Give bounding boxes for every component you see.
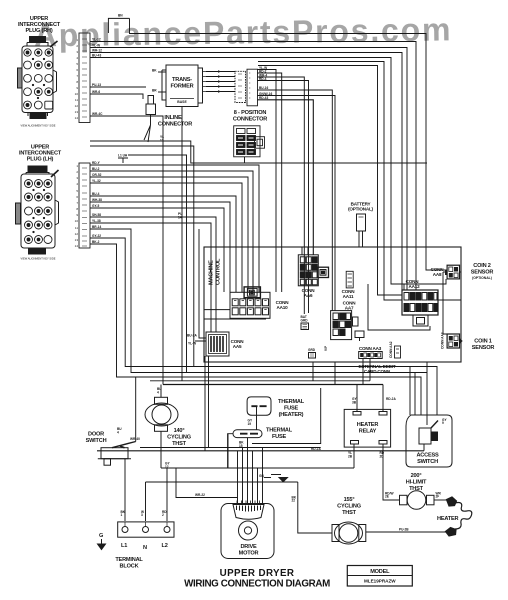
connector CONN AA8 — [431, 265, 460, 279]
svg-text:GY-22: GY-22 — [92, 234, 101, 238]
wire bus y482 — [146, 481, 298, 483]
wire relay YL-2B down — [353, 444, 355, 468]
svg-text:FUSE: FUSE — [284, 406, 299, 412]
terminal block TB1 — [118, 522, 174, 537]
node RH strip wire labels — [92, 38, 103, 116]
access switch S2 — [406, 415, 452, 467]
svg-text:14: 14 — [178, 215, 182, 219]
wire BU-4 — [90, 196, 236, 292]
wire RD-43 — [257, 100, 313, 255]
svg-text:HI-LIMIT: HI-LIMIT — [406, 480, 427, 486]
svg-text:RELAY: RELAY — [359, 429, 377, 435]
connector CONN AA6 — [298, 255, 328, 286]
battery B1 — [348, 202, 373, 232]
heater relay K1 — [344, 409, 390, 447]
connector CONN AA4 — [441, 332, 463, 349]
svg-text:BR: BR — [152, 89, 157, 93]
wire GN-W — [257, 96, 335, 311]
wire box drop x335 — [334, 362, 336, 385]
thermostat TH3 155 cycling — [332, 522, 366, 544]
wire net UH row155 — [128, 155, 187, 373]
svg-text:GY-5: GY-5 — [92, 204, 99, 208]
transformer T1 — [162, 65, 206, 107]
svg-text:GRD: GRD — [308, 348, 316, 352]
svg-text:13: 13 — [75, 110, 79, 114]
svg-text:11: 11 — [75, 226, 78, 230]
wire transformer out 4 — [206, 86, 235, 88]
node CONN AA11 label — [342, 289, 356, 299]
wire fuse drop x228 — [227, 434, 229, 468]
wire AA5 feeds — [195, 229, 206, 341]
svg-text:CONN AA3: CONN AA3 — [359, 346, 382, 351]
svg-text:8 - POSITION: 8 - POSITION — [234, 110, 267, 116]
svg-text:COIN 1: COIN 1 — [474, 339, 492, 345]
svg-text:14: 14 — [75, 116, 79, 120]
node 200 HI-LIMIT THST label — [406, 473, 427, 492]
svg-text:VIEW ALIGNMENT KEY SIDE: VIEW ALIGNMENT KEY SIDE — [21, 124, 56, 128]
svg-text:OR-52: OR-52 — [92, 173, 102, 177]
connector CONN AA2 — [389, 341, 401, 358]
node RH strip pin numbers — [75, 38, 79, 120]
wire AA8 to edge — [459, 271, 461, 273]
node CONN AA5 label — [231, 339, 245, 349]
machine control box U1 — [204, 247, 461, 362]
node COIN 2 SENSOR label — [471, 263, 494, 280]
wire inline drop — [144, 114, 151, 142]
wire access drop — [423, 445, 425, 451]
wire RD-4 — [257, 81, 309, 314]
thermostat TH2 hi-limit — [400, 491, 435, 510]
wire AA12 jogs — [404, 284, 461, 300]
wire relay RD-2D down — [383, 444, 399, 500]
wire box drop x313 — [312, 362, 314, 381]
svg-text:DOOR: DOOR — [88, 432, 104, 438]
wire WR-4C vertical — [90, 116, 163, 385]
wire access feed x427 — [426, 362, 428, 425]
wire net row146 — [90, 146, 194, 367]
svg-text:MOTOR: MOTOR — [239, 551, 259, 557]
svg-text:PU-13: PU-13 — [92, 83, 101, 87]
svg-text:PLUG (RH): PLUG (RH) — [25, 28, 52, 34]
connector inline — [146, 96, 156, 115]
wire YL-W top — [90, 48, 407, 291]
svg-text:10: 10 — [75, 219, 79, 223]
wire thermal corner box — [252, 388, 321, 444]
wire RD-2 — [257, 73, 282, 292]
node EXTERNAL DEBIT CARD CONN label — [359, 364, 396, 374]
svg-text:WR-6: WR-6 — [92, 90, 100, 94]
wire YL-32 — [90, 183, 242, 292]
connector 8-position — [235, 69, 258, 106]
svg-text:AA8: AA8 — [433, 272, 442, 277]
svg-text:THST: THST — [342, 510, 357, 516]
thermal fuse F1 (heater) — [247, 397, 271, 415]
node UPPER INTERCONNECT PLUG (RH) label — [18, 16, 61, 34]
wire bus y380.8 — [150, 380, 370, 382]
svg-text:BASE: BASE — [177, 100, 187, 104]
svg-text:AA10: AA10 — [277, 305, 289, 310]
svg-text:PU-2B: PU-2B — [399, 528, 409, 532]
svg-text:PLUG (LH): PLUG (LH) — [27, 157, 54, 163]
wire staircase node — [90, 141, 427, 163]
svg-text:SENSOR: SENSOR — [471, 270, 494, 276]
connector P-LH plug pins — [25, 180, 53, 244]
wire WR-4 — [257, 77, 304, 314]
svg-text:COIN 2: COIN 2 — [473, 263, 491, 269]
wire YL-12 — [90, 42, 416, 291]
wire WR-6 — [90, 94, 143, 99]
node ACCESS SWITCH label — [416, 453, 439, 466]
node BAT GRD terminal — [301, 315, 309, 330]
wire DE drop — [244, 157, 246, 163]
svg-text:FORMER: FORMER — [170, 84, 193, 90]
wire transformer in BK — [158, 71, 166, 73]
wire L2 riser — [166, 468, 168, 521]
wire WR-22 jog — [176, 468, 238, 498]
wire transformer in BR — [158, 91, 166, 93]
wire BK-2 — [90, 244, 421, 415]
svg-text:L1 UH: L1 UH — [118, 154, 128, 158]
ground G2 near motor — [259, 474, 288, 482]
svg-text:N: N — [143, 545, 147, 551]
connector CONN AA7 — [331, 311, 364, 341]
wire bus y468 — [161, 467, 354, 469]
heater HTR1 — [446, 497, 472, 536]
svg-text:BK-2: BK-2 — [92, 240, 100, 244]
svg-text:UPPER DRYER: UPPER DRYER — [220, 568, 295, 579]
connector P-RH plug pins — [24, 49, 53, 109]
wire AA5 drop pair — [205, 356, 209, 451]
connector J-RH strip — [79, 33, 90, 123]
wire GY-5 — [90, 208, 224, 292]
node CONN AA10 label — [276, 300, 290, 310]
node bottom title — [184, 568, 330, 590]
svg-text:BR-14: BR-14 — [92, 225, 101, 229]
svg-text:12: 12 — [75, 232, 79, 236]
wire transformer out 5 — [206, 91, 235, 93]
svg-text:CONTROL: CONTROL — [216, 258, 222, 285]
connector CONN AA3 — [359, 346, 383, 359]
svg-text:THERMAL: THERMAL — [266, 428, 293, 434]
wire N riser — [145, 482, 147, 521]
wire AA6 feeds — [302, 247, 308, 255]
svg-text:CARD CONN: CARD CONN — [364, 369, 391, 374]
node HEATER RELAY label — [357, 422, 379, 435]
wire ground-GN stub — [264, 477, 271, 479]
svg-text:140°: 140° — [174, 428, 185, 434]
svg-text:SWITCH: SWITCH — [417, 459, 438, 465]
svg-text:INLINE: INLINE — [164, 115, 182, 121]
svg-text:14: 14 — [75, 244, 79, 248]
connector P-RH plug body — [18, 37, 58, 119]
node THERMAL FUSE (HEATER) label — [278, 399, 305, 418]
node DRIVE MOTOR label — [239, 544, 259, 557]
svg-text:CONN AA4: CONN AA4 — [441, 332, 445, 349]
svg-text:ACCESS: ACCESS — [416, 453, 439, 459]
connector J-LH strip — [79, 163, 90, 248]
wire door lever feed — [135, 377, 137, 442]
wire YL-W conn — [257, 70, 276, 293]
wire BN jog top — [108, 18, 129, 33]
thermostat TH1 140 cycling — [145, 385, 178, 469]
svg-text:HEATER: HEATER — [437, 516, 459, 522]
svg-text:BU-2A: BU-2A — [187, 334, 197, 338]
node THERMAL FUSE label — [266, 428, 293, 441]
wire BU-16 — [257, 90, 332, 311]
svg-text:BLOCK: BLOCK — [120, 564, 139, 570]
svg-text:WH-38: WH-38 — [92, 198, 102, 202]
svg-text:WR-4C: WR-4C — [92, 112, 103, 116]
svg-text:THST: THST — [172, 441, 187, 447]
node TERMINAL BLOCK label — [115, 557, 143, 570]
wire thermal link — [256, 407, 258, 430]
svg-text:12: 12 — [75, 104, 79, 108]
node MACHINE CONTROL label — [209, 258, 222, 285]
svg-text:BU-43: BU-43 — [92, 54, 101, 58]
svg-text:GN: GN — [259, 474, 264, 478]
connector CONN AA11 — [346, 271, 353, 288]
svg-text:BU-4: BU-4 — [92, 192, 100, 196]
wire battery leads — [359, 231, 363, 247]
wire UH stub — [118, 158, 128, 163]
svg-text:AA11: AA11 — [343, 294, 354, 299]
wire coin link AA8-AA4 — [443, 272, 447, 334]
svg-text:155°: 155° — [344, 497, 355, 503]
svg-text:FUSE: FUSE — [272, 434, 287, 440]
svg-text:CONN AA2: CONN AA2 — [389, 341, 393, 358]
svg-text:YL12: YL12 — [160, 135, 164, 142]
svg-text:RD-2A: RD-2A — [311, 447, 321, 451]
wire GY-22 — [90, 238, 437, 415]
wire hi-limit to heater — [434, 499, 447, 501]
wire motor leads — [238, 438, 263, 504]
svg-text:SH-58: SH-58 — [92, 213, 101, 217]
wire net top7 — [258, 62, 402, 301]
wire door to right y447.5 — [140, 447, 321, 449]
svg-text:L1: L1 — [121, 543, 127, 549]
svg-text:WIRING CONNECTION DIAGRAM: WIRING CONNECTION DIAGRAM — [184, 579, 330, 590]
svg-text:V/P: V/P — [324, 345, 328, 351]
svg-text:GRD: GRD — [301, 319, 309, 323]
wire transformer base drop — [181, 107, 183, 381]
wire WR-12 — [90, 53, 402, 291]
node 155 CYCLING THST label — [337, 497, 361, 516]
wire bus y450.8 thick — [97, 450, 424, 452]
connector CONN AA10 — [230, 287, 270, 318]
wire bus WR-4C thick — [163, 384, 383, 386]
svg-text:13: 13 — [75, 238, 79, 242]
connector CONN AA5 — [206, 332, 229, 356]
svg-text:AA5: AA5 — [233, 344, 242, 349]
svg-text:VIEW ALIGNMENT KEY SIDE: VIEW ALIGNMENT KEY SIDE — [21, 257, 56, 261]
node COIN 1 SENSOR label — [472, 339, 495, 352]
svg-text:AA6: AA6 — [304, 293, 313, 298]
node 140 CYCLING THST label — [167, 428, 191, 447]
motor M1 drive — [221, 501, 274, 559]
wire SH-58 — [90, 217, 216, 332]
svg-text:TRANS-: TRANS- — [172, 77, 192, 83]
svg-text:YL-12: YL-12 — [92, 38, 101, 42]
wire WH-38 — [90, 202, 230, 292]
svg-text:200°: 200° — [411, 473, 422, 479]
svg-text:YL-32: YL-32 — [92, 179, 101, 183]
svg-text:L2: L2 — [162, 543, 168, 549]
wire YL-38 — [90, 223, 211, 332]
svg-text:MODEL: MODEL — [370, 569, 390, 575]
svg-text:YL2B: YL2B — [348, 451, 353, 458]
svg-text:SENSOR: SENSOR — [472, 345, 495, 351]
connector P-LH plug body — [16, 166, 59, 254]
wire BK riser — [298, 482, 332, 533]
wire AA4 to edge — [459, 340, 461, 342]
svg-text:YL-38: YL-38 — [92, 219, 101, 223]
wire RD-Y — [90, 165, 259, 292]
svg-text:(OPTIONAL): (OPTIONAL) — [348, 207, 373, 212]
wire L1 riser — [124, 459, 126, 521]
svg-text:YL-W: YL-W — [92, 44, 100, 48]
wire heater bottom to 155 — [366, 531, 447, 533]
wire relay feed GY — [356, 385, 358, 413]
node 8-pos wire labels — [259, 66, 272, 100]
wire AA10 top drop — [252, 247, 254, 287]
wire thermal left — [228, 434, 233, 468]
svg-text:10: 10 — [75, 92, 79, 96]
wire BR-14 — [90, 229, 427, 415]
svg-text:TERMINAL: TERMINAL — [115, 557, 143, 563]
svg-text:HEATER: HEATER — [357, 422, 379, 428]
svg-text:YL-W: YL-W — [188, 342, 196, 346]
svg-text:CONNECTOR: CONNECTOR — [233, 117, 267, 123]
node CONN AA7 label — [343, 301, 357, 311]
node GRD terminal — [308, 348, 316, 358]
node 8-POSITION CONNECTOR label — [233, 110, 267, 123]
svg-text:(HEATER): (HEATER) — [279, 412, 304, 418]
svg-text:11: 11 — [75, 98, 78, 102]
transformer output arrows — [218, 70, 221, 93]
svg-text:WR-12: WR-12 — [92, 49, 102, 53]
wire BU-43 — [90, 58, 446, 285]
wire transformer out 2 — [206, 76, 235, 78]
svg-text:RD-2A: RD-2A — [386, 397, 396, 401]
connector DE block — [234, 126, 265, 157]
wire AA3 drops — [363, 358, 370, 384]
svg-text:RD-Y: RD-Y — [92, 161, 101, 165]
svg-text:BN: BN — [118, 14, 123, 18]
svg-text:DRIVE: DRIVE — [240, 544, 257, 550]
wire relay feed RD-2A — [382, 385, 384, 413]
svg-text:G: G — [99, 533, 103, 539]
svg-text:THERMAL: THERMAL — [278, 399, 305, 405]
thermal fuse F2 — [233, 430, 262, 438]
svg-text:AA12: AA12 — [409, 284, 421, 289]
svg-text:MACHINE: MACHINE — [209, 260, 215, 285]
svg-text:RD-4: RD-4 — [259, 77, 267, 81]
wire net top8 — [258, 66, 402, 296]
node LH strip pin numbers — [75, 164, 79, 248]
svg-text:SWITCH: SWITCH — [86, 438, 107, 444]
wire PU-13 — [90, 86, 146, 88]
svg-text:WR-22: WR-22 — [195, 493, 205, 497]
wire AA12 bottom loop — [368, 284, 430, 330]
wire net L1A y33.5 — [130, 18, 446, 270]
connector CONN AA12 — [402, 279, 438, 326]
node MODEL box — [347, 566, 412, 587]
svg-text:WR-40: WR-40 — [130, 437, 140, 441]
wire AA10 feed left — [204, 309, 230, 311]
node UPPER INTERCONNECT PLUG (LH) label — [19, 145, 62, 163]
ground G1 — [98, 533, 106, 550]
wire transformer out 3 — [206, 81, 235, 83]
svg-text:MLE19PRAZW: MLE19PRAZW — [364, 579, 396, 584]
wire AA10 under — [204, 318, 266, 320]
node INLINE CONNECTOR label — [158, 115, 192, 128]
svg-text:RD-43: RD-43 — [259, 96, 268, 100]
wire OR-52 — [90, 177, 248, 292]
svg-text:CYCLING: CYCLING — [167, 435, 191, 441]
svg-text:CYCLING: CYCLING — [337, 504, 361, 510]
wire BU-2 — [90, 171, 253, 292]
svg-text:BU-16: BU-16 — [259, 86, 268, 90]
svg-text:AA7: AA7 — [345, 306, 354, 311]
svg-text:CONNECTOR: CONNECTOR — [158, 122, 192, 128]
node DOOR SWITCH label — [86, 432, 107, 445]
svg-text:(OPTIONAL): (OPTIONAL) — [472, 276, 492, 280]
node CONN AA6 label — [302, 288, 316, 298]
svg-text:BK: BK — [152, 69, 157, 73]
node LH strip wire labels — [92, 161, 102, 244]
wire transformer out 1 — [206, 71, 235, 73]
switch S1 door — [98, 442, 136, 466]
svg-text:BU-2: BU-2 — [92, 167, 100, 171]
